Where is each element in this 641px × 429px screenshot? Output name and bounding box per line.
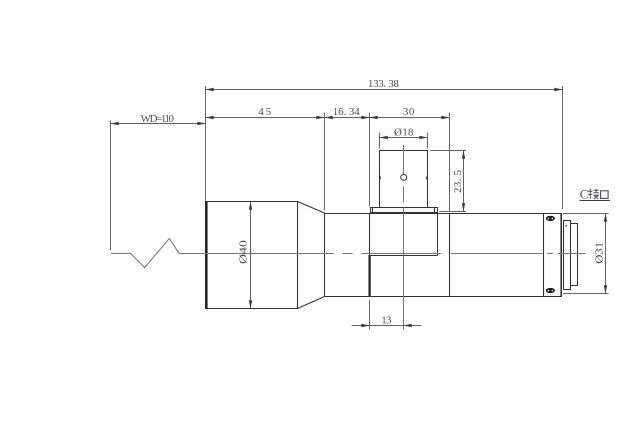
svg-text:Ø40: Ø40	[237, 239, 249, 264]
svg-text:C: C	[580, 187, 589, 202]
svg-text:13: 13	[381, 314, 392, 326]
svg-text:23. 5: 23. 5	[452, 170, 464, 194]
svg-text:Ø18: Ø18	[394, 127, 414, 139]
svg-text:Ø31: Ø31	[594, 242, 606, 264]
svg-text:45: 45	[258, 106, 272, 118]
svg-text:16. 34: 16. 34	[333, 106, 361, 118]
svg-text:30: 30	[403, 106, 415, 118]
svg-text:133. 38: 133. 38	[368, 78, 400, 90]
svg-text:WD=110: WD=110	[141, 113, 175, 125]
